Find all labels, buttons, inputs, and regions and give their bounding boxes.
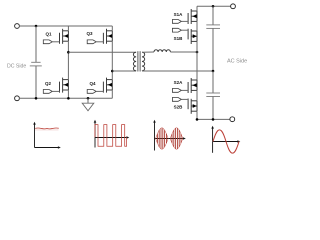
transformer T1 primary winding <box>133 52 136 71</box>
waveform plot 1 trace: DC voltage with ripple <box>35 128 59 130</box>
terminal AC neutral <box>230 117 235 122</box>
wire Q3 gate lead <box>96 41 103 43</box>
ground <box>82 98 94 111</box>
wire C1 top lead <box>35 26 37 62</box>
gate flag Q1 <box>43 40 52 44</box>
wire Q4 gate lead <box>96 90 103 92</box>
waveform plot 3 axes (modulated HF) <box>153 120 186 151</box>
wire S1A drain <box>196 6 198 11</box>
label S1A <box>174 12 184 17</box>
node B (Q3/Q4 midpoint) <box>111 70 114 73</box>
wire S1A-S1B link <box>196 21 198 31</box>
wire S1A gate lead <box>181 20 188 22</box>
svg-text:S1A: S1A <box>174 12 184 17</box>
wire Q2 gate lead <box>52 90 59 92</box>
wire C2 bottom lead <box>212 28 214 71</box>
inductor L1 <box>154 50 170 52</box>
label S2B <box>174 105 184 110</box>
wire node B to transformer primary <box>112 70 136 72</box>
capacitor C1 (DC bus) <box>30 62 42 66</box>
transistor S1A <box>188 9 197 24</box>
node S2B / AC bottom rail <box>196 118 199 121</box>
wire Q3 drain <box>111 26 113 31</box>
label Q1 <box>45 32 52 37</box>
wire C2 top lead <box>212 6 214 25</box>
wire C3 bottom lead <box>212 97 214 120</box>
node AC top / C2 <box>212 5 215 8</box>
wire S2B gate lead <box>181 98 188 100</box>
node DC-/C1 <box>35 97 38 100</box>
transistor Q1 <box>60 29 69 44</box>
gate flag Q4 <box>87 90 96 94</box>
node AC bottom / C3 <box>212 118 215 121</box>
node L1 / S-leg <box>196 51 199 54</box>
capacitor C3 (AC filter bottom) <box>206 93 220 97</box>
wire T1 secondary bottom lead <box>142 70 213 72</box>
label S1B <box>174 36 184 41</box>
gate flag Q2 <box>43 90 52 94</box>
wire Q1 drain <box>67 26 69 31</box>
wire DC- rail <box>19 97 112 99</box>
gate flag Q3 <box>87 40 96 44</box>
waveform plot 1 axes (DC bus) <box>33 122 61 149</box>
svg-text:DC Side: DC Side <box>7 64 26 70</box>
wire node A to transformer primary <box>68 51 136 53</box>
terminal DC+ <box>15 24 20 29</box>
node ground tap <box>87 97 90 100</box>
wire S1B gate lead <box>181 29 188 31</box>
label Q4 <box>89 81 96 86</box>
wire Q4 drain <box>111 71 113 80</box>
transistor Q2 <box>60 78 69 93</box>
wire T1 primary bottom lead <box>135 70 137 72</box>
label S2A <box>174 80 184 85</box>
wire AC bottom rail <box>197 118 231 120</box>
node AC mid / C2-C3 <box>212 70 215 73</box>
label Q3 <box>86 31 93 36</box>
svg-text:Q1: Q1 <box>45 32 52 37</box>
gate flag S1A <box>172 20 181 24</box>
waveform plot 2 axes (HF bridge output) <box>94 120 130 148</box>
transistor S2A <box>188 78 197 93</box>
gate flag S2B <box>172 98 181 102</box>
svg-text:S2A: S2A <box>174 80 184 85</box>
node Q2 source / DC- rail <box>67 97 70 100</box>
label DC Side <box>7 64 26 70</box>
wire T1 secondary top lead <box>142 51 154 53</box>
wire S-leg middle <box>196 52 198 80</box>
node A (Q1/Q2 midpoint) <box>67 51 70 54</box>
waveform plot 2 trace: high-frequency square wave <box>95 125 127 147</box>
waveform plot 4 trace: AC sine output <box>213 130 239 153</box>
wire S1B source <box>196 41 198 52</box>
wire S2A-S2B link <box>196 90 198 100</box>
svg-text:Q4: Q4 <box>89 81 96 86</box>
wire S2A gate lead <box>181 89 188 91</box>
wire S2B source <box>196 111 198 119</box>
wire Q2 drain <box>67 52 69 79</box>
svg-text:Q3: Q3 <box>86 31 93 36</box>
svg-text:S1B: S1B <box>174 36 184 41</box>
transistor Q4 <box>103 78 112 93</box>
transformer T1 secondary winding <box>142 52 145 71</box>
svg-text:AC Side: AC Side <box>227 59 247 65</box>
wire C3 top lead <box>212 71 214 93</box>
wire AC top rail <box>197 5 231 7</box>
wire Q3 source <box>111 41 113 71</box>
svg-text:S2B: S2B <box>174 105 184 110</box>
wire L1 to S-leg <box>170 51 197 53</box>
svg-text:Q2: Q2 <box>45 81 52 86</box>
waveform plot 4 axes (AC output) <box>211 126 240 153</box>
wire Q1 source <box>67 41 69 52</box>
capacitor C2 (AC filter top) <box>206 25 220 29</box>
waveform plot 3 trace: sinusoidally modulated HF bursts <box>156 128 183 149</box>
transistor S1B <box>188 29 197 44</box>
terminal DC- <box>15 96 20 101</box>
terminal AC line <box>231 4 236 9</box>
node DC+/C1 <box>35 25 38 28</box>
wire DC+ rail <box>19 25 112 27</box>
label Q2 <box>45 81 52 86</box>
wire Q4 source <box>111 90 113 98</box>
label AC Side <box>227 59 247 65</box>
transformer T1 core <box>138 51 140 71</box>
wire C1 bottom lead <box>35 66 37 98</box>
transistor S2B <box>188 99 197 114</box>
wire Q2 source <box>67 90 69 98</box>
gate flag S1B <box>172 28 181 32</box>
gate flag S2A <box>172 89 181 93</box>
transistor Q3 <box>103 29 112 44</box>
wire Q1 gate lead <box>52 41 59 43</box>
